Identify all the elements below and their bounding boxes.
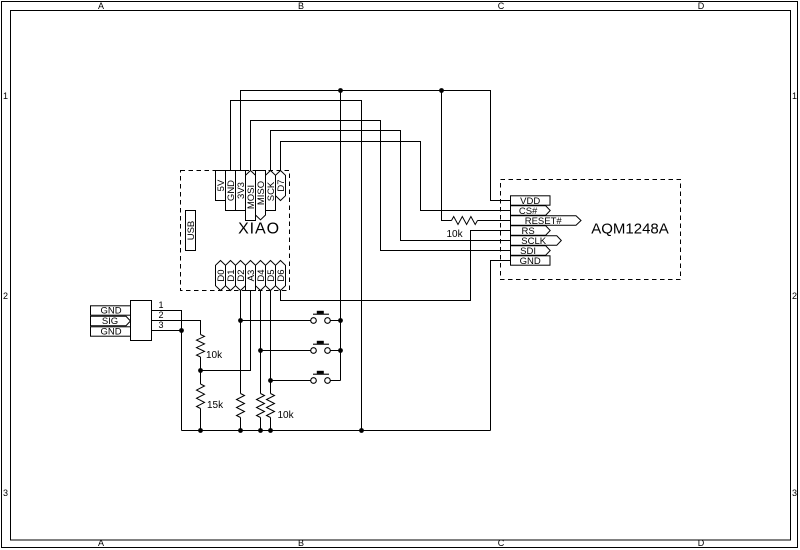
- svg-text:10k: 10k: [278, 410, 295, 421]
- svg-text:D: D: [698, 538, 705, 548]
- svg-text:10k: 10k: [447, 229, 464, 240]
- svg-text:D6: D6: [276, 269, 287, 281]
- svg-text:2: 2: [158, 310, 163, 320]
- svg-text:C: C: [498, 538, 505, 548]
- svg-text:AQM1248A: AQM1248A: [591, 221, 669, 238]
- svg-text:SIG: SIG: [102, 316, 118, 327]
- svg-text:A: A: [98, 538, 104, 548]
- svg-text:B: B: [298, 538, 304, 548]
- svg-text:B: B: [298, 1, 304, 11]
- svg-text:D7: D7: [276, 179, 287, 191]
- svg-text:1: 1: [3, 91, 8, 101]
- svg-text:10k: 10k: [206, 350, 223, 361]
- svg-text:GND: GND: [100, 327, 121, 338]
- svg-text:1: 1: [158, 300, 163, 310]
- svg-text:GND: GND: [100, 306, 121, 317]
- svg-text:3: 3: [158, 320, 163, 330]
- svg-text:C: C: [498, 1, 505, 11]
- svg-text:GND: GND: [520, 256, 541, 267]
- svg-text:3: 3: [792, 488, 797, 498]
- svg-text:2: 2: [3, 291, 8, 301]
- svg-text:3: 3: [3, 488, 8, 498]
- svg-text:1: 1: [792, 91, 797, 101]
- svg-text:D: D: [698, 1, 705, 11]
- svg-text:USB: USB: [186, 221, 197, 241]
- svg-text:A: A: [98, 1, 104, 11]
- svg-text:2: 2: [792, 291, 797, 301]
- svg-text:15k: 15k: [207, 400, 224, 411]
- svg-text:XIAO: XIAO: [238, 221, 280, 238]
